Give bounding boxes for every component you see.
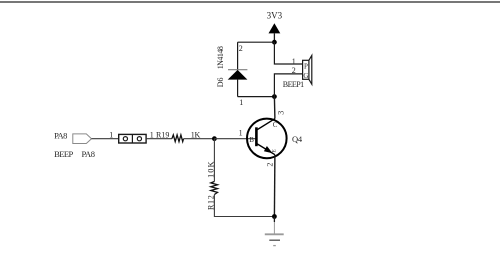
svg-text:BEEP1: BEEP1 bbox=[283, 80, 304, 89]
junction node collector bbox=[272, 94, 277, 99]
label BEEP PA8 bbox=[54, 149, 95, 159]
svg-text:1: 1 bbox=[239, 98, 243, 107]
svg-text:P: P bbox=[304, 62, 308, 70]
wire 3V3 junction to D6 cathode bbox=[238, 41, 275, 43]
wire D6 anode to collector node bbox=[238, 96, 275, 98]
wire R19 to base node bbox=[184, 138, 215, 140]
wire R12 down and right to emitter node bbox=[214, 195, 274, 217]
resistor R12 bbox=[211, 182, 218, 195]
wire base node down to R12 bbox=[213, 139, 215, 182]
svg-text:PA8: PA8 bbox=[82, 149, 95, 159]
svg-text:2: 2 bbox=[292, 66, 296, 75]
junction node emitter bbox=[272, 214, 277, 219]
wire collector node to Q4 collector bbox=[273, 97, 276, 119]
junction node base bbox=[212, 136, 217, 141]
power 3V3 bbox=[267, 11, 283, 43]
transistor Q4 bbox=[247, 119, 287, 159]
svg-text:1: 1 bbox=[239, 129, 243, 138]
svg-text:B: B bbox=[249, 136, 254, 144]
buzzer BEEP1 bbox=[303, 55, 312, 84]
svg-text:10K: 10K bbox=[205, 160, 215, 178]
svg-text:1: 1 bbox=[292, 57, 296, 66]
svg-text:2: 2 bbox=[239, 44, 243, 53]
wire base node to Q4 base bbox=[214, 138, 256, 140]
svg-text:3V3: 3V3 bbox=[267, 11, 283, 21]
svg-text:3: 3 bbox=[276, 111, 285, 115]
wire D6 cathode pin 2 bbox=[237, 42, 239, 69]
svg-text:C: C bbox=[273, 121, 278, 129]
jumper J (2 pin header) bbox=[119, 134, 146, 143]
wire PA8 flag to jumper bbox=[92, 138, 119, 140]
svg-text:Q4: Q4 bbox=[292, 134, 303, 144]
wire 3V3 junction down to buzzer pin 1 bbox=[274, 42, 302, 64]
svg-text:G: G bbox=[303, 72, 308, 80]
svg-text:PA8: PA8 bbox=[54, 131, 67, 141]
svg-text:1K: 1K bbox=[191, 130, 201, 139]
wire buzzer pin 2 to collector node bbox=[274, 74, 302, 97]
diode D6 bbox=[228, 70, 248, 80]
svg-text:1: 1 bbox=[109, 130, 113, 139]
svg-text:BEEP: BEEP bbox=[54, 149, 73, 159]
svg-text:1: 1 bbox=[150, 130, 154, 139]
wire Q4 emitter down to emitter node bbox=[273, 155, 276, 217]
ground bbox=[265, 217, 284, 246]
svg-text:2: 2 bbox=[265, 163, 274, 167]
svg-text:1N4148: 1N4148 bbox=[216, 46, 225, 69]
svg-text:D6: D6 bbox=[216, 78, 225, 88]
wire jumper to R19 bbox=[146, 138, 172, 140]
wire D6 anode pin 1 bbox=[237, 80, 239, 97]
net label PA8 bbox=[54, 131, 91, 144]
svg-text:R19: R19 bbox=[156, 130, 169, 139]
junction node 3V3 bbox=[272, 40, 277, 45]
resistor R19 bbox=[172, 135, 184, 142]
